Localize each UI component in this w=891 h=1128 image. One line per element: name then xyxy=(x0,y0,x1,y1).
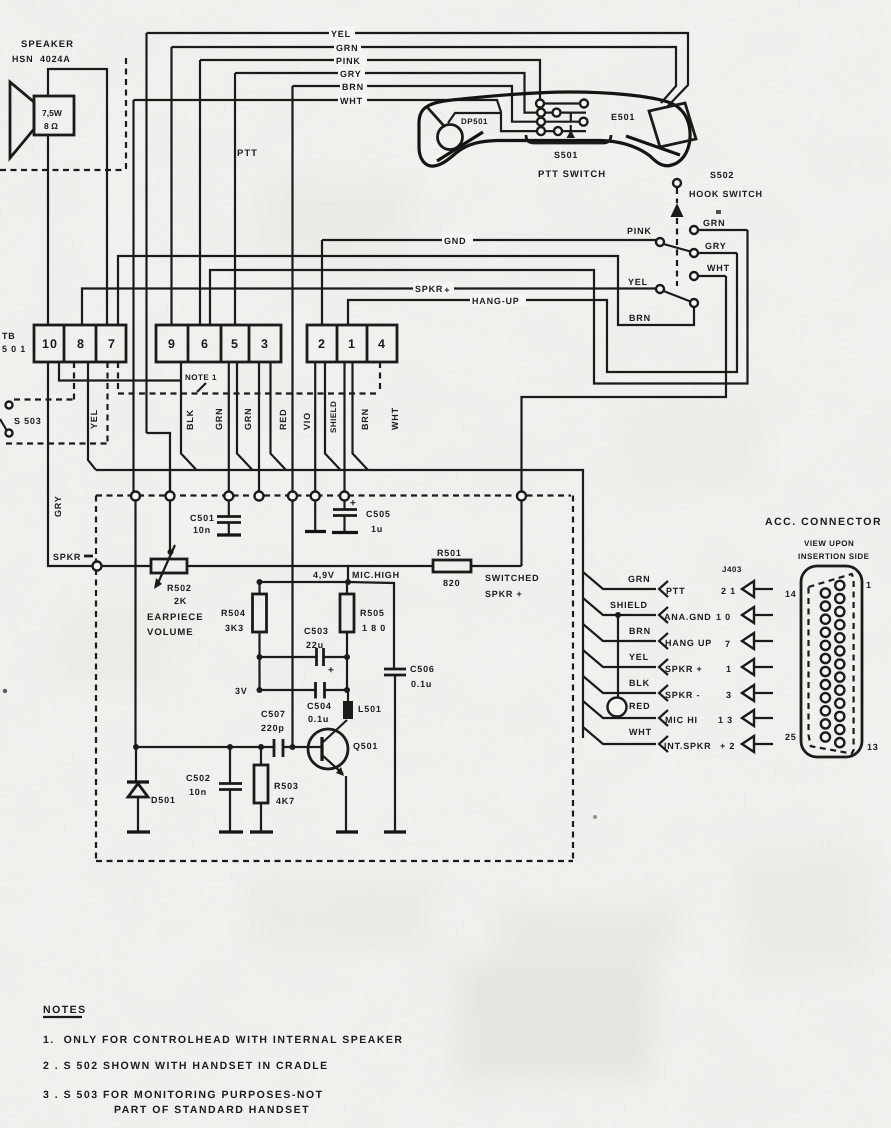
svg-text:0.1u: 0.1u xyxy=(308,714,329,724)
svg-text:SHIELD: SHIELD xyxy=(329,401,338,433)
speaker LS cone xyxy=(10,82,34,158)
terminal circle VIO xyxy=(288,492,297,501)
svg-text:7: 7 xyxy=(108,337,116,351)
svg-text:SPEAKER: SPEAKER xyxy=(21,39,74,50)
resistor R501 xyxy=(433,548,522,588)
terminal circle WHT xyxy=(131,492,140,501)
svg-text:GRY: GRY xyxy=(340,69,362,79)
svg-text:SPKR +: SPKR + xyxy=(665,664,703,674)
wire TB501-1a to terminal xyxy=(343,362,345,492)
wire WHT top xyxy=(134,100,502,112)
wire R502 to R501 xyxy=(187,565,433,567)
fan row SHIELD-ANA.GND xyxy=(583,598,773,623)
svg-text:3 . S 503 FOR MONITORING PURPO: 3 . S 503 FOR MONITORING PURPOSES-NOT xyxy=(43,1089,324,1101)
wire to C506 xyxy=(348,582,394,669)
svg-text:+ 2: + 2 xyxy=(720,741,735,751)
svg-text:1 8 0: 1 8 0 xyxy=(362,623,386,633)
wire BRN top xyxy=(293,86,537,122)
svg-text:4: 4 xyxy=(378,337,386,351)
svg-text:INT.SPKR: INT.SPKR xyxy=(664,741,711,751)
label GRN xyxy=(334,41,361,53)
wire speaker bottom to TB501-10 xyxy=(47,135,49,325)
inductor L501 xyxy=(343,690,382,719)
connector inner dashed outline xyxy=(809,574,854,754)
fan row BRN-HANG UP xyxy=(583,624,773,649)
capacitor C507 xyxy=(261,709,286,757)
hook contact PINK + blade xyxy=(656,238,691,252)
wire WHT vertical to cable terminal xyxy=(132,100,134,492)
svg-text:VIO: VIO xyxy=(302,412,312,430)
svg-text:WHT: WHT xyxy=(629,727,652,737)
svg-text:WHT: WHT xyxy=(707,263,730,273)
svg-text:1 0: 1 0 xyxy=(716,612,731,622)
svg-text:10: 10 xyxy=(42,337,58,351)
svg-text:MIC HI: MIC HI xyxy=(665,715,698,725)
switch S503 xyxy=(0,402,13,437)
svg-text:C504: C504 xyxy=(307,701,332,711)
ground stub SHIELD terminal xyxy=(305,500,326,532)
wire GRY from TB501-10 to SPKR- xyxy=(48,362,93,566)
dashed wire TB501-8 to S503 xyxy=(14,362,74,400)
wire TB501-10b to cable xyxy=(59,362,181,381)
svg-text:GRN: GRN xyxy=(336,43,358,53)
svg-text:MIC.HIGH: MIC.HIGH xyxy=(352,570,400,580)
hook contact GRN xyxy=(690,226,748,234)
svg-text:RED: RED xyxy=(278,409,288,430)
svg-text:BRN: BRN xyxy=(360,408,370,430)
fan row WHT-INT.SPKR xyxy=(583,727,773,752)
svg-text:D501: D501 xyxy=(151,795,176,805)
dashed speaker enclosure boundary xyxy=(0,58,126,170)
svg-text:HOOK SWITCH: HOOK SWITCH xyxy=(689,189,763,199)
svg-text:TB: TB xyxy=(2,331,16,341)
svg-text:BRN: BRN xyxy=(629,626,651,636)
capacitor C506 xyxy=(384,664,435,832)
wire GRN vertical to TB501-9 xyxy=(170,47,172,325)
label SPKR+ xyxy=(413,282,454,295)
svg-text:22u: 22u xyxy=(306,640,324,650)
label VIEW UPON INSERTION SIDE xyxy=(798,539,870,561)
svg-text:PTT SWITCH: PTT SWITCH xyxy=(538,169,606,180)
svg-text:6: 6 xyxy=(201,337,209,351)
notes text xyxy=(43,1004,404,1116)
svg-text:8: 8 xyxy=(77,337,85,351)
svg-text:GRN: GRN xyxy=(628,574,650,584)
speaker LS body 7,5W 8ohm xyxy=(34,96,74,135)
label GND xyxy=(442,234,473,246)
svg-text:BRN: BRN xyxy=(342,82,364,92)
svg-text:220p: 220p xyxy=(261,723,285,733)
earpiece E501 square xyxy=(649,103,696,147)
svg-text:1: 1 xyxy=(348,337,356,351)
svg-text:1 3: 1 3 xyxy=(718,715,733,725)
svg-text:GRY: GRY xyxy=(705,241,727,251)
svg-text:5 0 1: 5 0 1 xyxy=(2,344,26,354)
SPKR- dash xyxy=(84,555,93,558)
wire WHT terminal drop to base line xyxy=(134,500,136,747)
svg-text:HANG UP: HANG UP xyxy=(665,638,712,648)
capacitor C505 xyxy=(332,498,391,534)
wire TB501-2b to cable xyxy=(325,362,341,470)
svg-text:J403: J403 xyxy=(722,565,742,574)
terminal circle SPKR- left xyxy=(93,562,102,571)
svg-text:0.1u: 0.1u xyxy=(411,679,432,689)
wire SPKR+ from TB501-8 to hook YEL xyxy=(82,289,656,326)
svg-text:SPKR+: SPKR+ xyxy=(415,284,450,295)
wire GRN top xyxy=(172,47,677,103)
wire HANG-UP from TB501-1 to hook GRY contact xyxy=(348,253,737,372)
wire TB501-9 BLK to cable xyxy=(181,362,197,470)
hook switch dashed plunger xyxy=(676,188,678,286)
hook switch arrow xyxy=(671,203,684,217)
svg-text:1u: 1u xyxy=(371,524,383,534)
fan row BLK-SPKR- xyxy=(583,676,773,701)
wire pocket around DP501 to S501 row4 xyxy=(448,113,537,131)
wire TB501-3b to cable xyxy=(271,362,287,470)
svg-text:SHIELD: SHIELD xyxy=(610,600,648,610)
wire speaker top to TB501-7 xyxy=(48,69,107,325)
resistor R503 xyxy=(250,747,299,832)
handset inner diagonal top-left xyxy=(427,107,445,127)
svg-text:10n: 10n xyxy=(193,525,211,535)
S501 row2 contacts xyxy=(537,109,586,117)
wire PINK vertical to TB501-6 xyxy=(199,60,201,325)
svg-text:YEL: YEL xyxy=(628,277,648,287)
wire TB501-2a to terminal xyxy=(314,362,316,492)
svg-text:SPKR: SPKR xyxy=(53,552,81,562)
fan bus xyxy=(582,569,584,738)
svg-text:2K: 2K xyxy=(174,596,187,606)
svg-text:C501: C501 xyxy=(190,513,215,523)
svg-text:PTT: PTT xyxy=(237,148,258,159)
svg-text:4K7: 4K7 xyxy=(276,796,295,806)
svg-text:WHT: WHT xyxy=(390,407,400,430)
dashed wire TB501-7 to S503 xyxy=(6,362,108,444)
earpiece cap diagonal xyxy=(626,136,680,155)
svg-text:BLK: BLK xyxy=(185,409,195,430)
svg-text:GRN: GRN xyxy=(703,218,725,228)
terminal circle GRN xyxy=(224,492,233,501)
svg-text:GND: GND xyxy=(444,236,466,246)
svg-text:YEL: YEL xyxy=(331,29,351,39)
label PINK xyxy=(334,54,367,66)
svg-text:HANG-UP: HANG-UP xyxy=(472,296,520,306)
svg-text:ACC. CONNECTOR: ACC. CONNECTOR xyxy=(765,516,882,528)
svg-text:E501: E501 xyxy=(611,112,635,122)
svg-text:VOLUME: VOLUME xyxy=(147,627,194,638)
transistor Q501 xyxy=(308,720,378,832)
wire GND from TB501-2 to hook PINK xyxy=(322,240,656,325)
svg-text:1: 1 xyxy=(866,580,872,590)
svg-text:RED: RED xyxy=(629,701,650,711)
fan row YEL-SPKR+ xyxy=(583,650,773,675)
svg-text:C502: C502 xyxy=(186,773,211,783)
svg-text:C506: C506 xyxy=(410,664,435,674)
hook contact WHT xyxy=(690,272,726,280)
fan row GRN-PTT xyxy=(583,572,773,597)
svg-text:YEL: YEL xyxy=(89,409,99,429)
wire hook WHT to R501 node xyxy=(522,276,727,566)
svg-text:+: + xyxy=(328,665,334,676)
S501 row3 contacts xyxy=(537,118,588,126)
base wire xyxy=(133,744,322,750)
svg-text:S 503: S 503 xyxy=(14,416,42,426)
terminal block TB501 group 10-8-7 xyxy=(34,325,126,362)
wire YEL jog to terminal xyxy=(147,433,171,492)
svg-text:R501: R501 xyxy=(437,548,462,558)
connector J403 body xyxy=(801,566,862,757)
dashed NOTE1 wire TB501-7 to TB501-4 xyxy=(118,362,380,394)
fan row RED-MIC HI xyxy=(583,698,773,727)
label SWITCHED SPKR+ xyxy=(485,573,539,599)
svg-text:R503: R503 xyxy=(274,781,299,791)
svg-text:GRY: GRY xyxy=(53,495,63,517)
stray mark xyxy=(716,210,721,214)
svg-text:VIEW UPON: VIEW UPON xyxy=(804,539,854,548)
svg-text:3: 3 xyxy=(726,690,732,700)
svg-text:2 1: 2 1 xyxy=(721,586,736,596)
svg-text:3V: 3V xyxy=(235,686,248,696)
svg-text:GRN: GRN xyxy=(243,408,253,430)
handset outline xyxy=(419,92,690,166)
resistor R504 xyxy=(221,582,267,690)
scan stains xyxy=(60,180,870,1080)
svg-text:PART OF STANDARD HANDSET: PART OF STANDARD HANDSET xyxy=(114,1104,310,1116)
wire PINK top xyxy=(200,60,540,99)
svg-text:2 . S 502 SHOWN WITH HANDSET I: 2 . S 502 SHOWN WITH HANDSET IN CRADLE xyxy=(43,1060,329,1072)
svg-text:PINK: PINK xyxy=(627,226,652,236)
svg-text:5: 5 xyxy=(231,337,239,351)
hook contact YEL + blade xyxy=(656,285,698,307)
hook switch S502 plunger circle xyxy=(673,179,681,187)
svg-text:7,5W: 7,5W xyxy=(42,108,63,118)
svg-text:SPKR -: SPKR - xyxy=(665,690,700,700)
svg-text:25: 25 xyxy=(785,732,797,742)
svg-text:BLK: BLK xyxy=(629,678,650,688)
svg-text:R502: R502 xyxy=(167,583,192,593)
svg-text:820: 820 xyxy=(443,578,460,588)
wire TB501-6 to hook GRN contact xyxy=(210,230,748,384)
cable bundle line xyxy=(96,470,583,569)
svg-text:C507: C507 xyxy=(261,709,286,719)
svg-text:1: 1 xyxy=(726,664,732,674)
svg-text:R504: R504 xyxy=(221,608,246,618)
svg-text:YEL: YEL xyxy=(629,652,649,662)
connector pins right column xyxy=(835,581,844,747)
connector pins left column xyxy=(821,588,830,741)
S501 actuator arrow xyxy=(567,130,576,138)
S501 actuator link xyxy=(570,113,572,135)
wire TB501-5b to cable xyxy=(237,362,253,470)
capacitor C502 xyxy=(186,747,243,832)
svg-text:WHT: WHT xyxy=(340,96,363,106)
capacitor C504 xyxy=(257,682,351,724)
wire YEL drop to terminal (cross) xyxy=(169,470,171,492)
wire YEL vertical xyxy=(145,33,147,433)
hook contact GRY xyxy=(690,249,737,257)
svg-text:10n: 10n xyxy=(189,787,207,797)
terminal circle BRN2 xyxy=(340,492,349,501)
wire GRY vertical to TB501-5 xyxy=(234,73,236,325)
terminal block TB501 group 9-6-5-3 xyxy=(156,325,281,362)
svg-text:S501: S501 xyxy=(554,150,578,160)
shield wire to RED loop xyxy=(615,612,621,698)
potentiometer R502 xyxy=(151,500,192,606)
wire VIO drop to base xyxy=(291,500,293,747)
label 4,9V MIC.HIGH xyxy=(313,570,400,580)
dashed box outline xyxy=(96,496,573,862)
svg-text:PINK: PINK xyxy=(336,56,361,66)
stray mark xyxy=(593,815,597,819)
label NOTE 1 xyxy=(185,373,217,392)
terminal circle SHIELD xyxy=(311,492,320,501)
svg-text:L501: L501 xyxy=(358,704,382,714)
microphone DP501 circle xyxy=(438,125,463,150)
svg-text:PTT: PTT xyxy=(666,586,685,596)
svg-text:4,9V: 4,9V xyxy=(313,570,335,580)
svg-text:SPKR +: SPKR + xyxy=(485,589,523,599)
svg-text:S502: S502 xyxy=(710,170,734,180)
label HANG-UP xyxy=(470,294,526,306)
svg-text:3: 3 xyxy=(261,337,269,351)
wire TB501-7 to hook BRN contact xyxy=(118,256,694,325)
svg-text:9: 9 xyxy=(168,337,176,351)
svg-text:DP501: DP501 xyxy=(461,117,488,126)
wire MIC.HIGH node xyxy=(257,566,352,585)
label GRY xyxy=(338,67,365,79)
svg-text:8 Ω: 8 Ω xyxy=(44,121,58,131)
terminal circle YEL xyxy=(166,492,175,501)
resistor R505 xyxy=(340,582,386,690)
stray mark xyxy=(3,689,7,693)
svg-text:3K3: 3K3 xyxy=(225,623,244,633)
svg-text:7: 7 xyxy=(725,639,731,649)
label WHT xyxy=(338,94,367,106)
speaker label xyxy=(12,39,74,64)
wire TB501-8 SPKR+ branch to cable xyxy=(88,362,96,470)
wire TB501-5a GRN to terminal xyxy=(228,362,230,492)
wire SPKR- rail xyxy=(101,565,151,567)
svg-text:ANA.GND: ANA.GND xyxy=(664,612,712,622)
svg-text:HSN 4024A: HSN 4024A xyxy=(12,54,71,64)
handset hatch diagonal left xyxy=(437,132,483,161)
capacitor C501 xyxy=(190,500,241,535)
S501 row1 contacts xyxy=(536,100,588,108)
svg-text:GRN: GRN xyxy=(214,408,224,430)
diode D501 xyxy=(127,747,176,832)
svg-text:BRN: BRN xyxy=(629,313,651,323)
svg-text:NOTES: NOTES xyxy=(43,1004,87,1016)
svg-text:NOTE 1: NOTE 1 xyxy=(185,373,217,382)
svg-text:Q501: Q501 xyxy=(353,741,378,751)
wire TB501-3a to terminal xyxy=(258,362,260,492)
wire BRN vertical to cable terminal xyxy=(291,86,293,492)
capacitor C503 xyxy=(257,626,351,676)
terminal circle GRN2 xyxy=(255,492,264,501)
S501 row4 contacts xyxy=(537,127,586,135)
svg-text:14: 14 xyxy=(785,589,797,599)
svg-text:13: 13 xyxy=(867,742,879,752)
svg-text:2: 2 xyxy=(318,337,326,351)
svg-text:C503: C503 xyxy=(304,626,329,636)
terminal circle switched SPKR+ xyxy=(517,492,526,501)
svg-text:1. ONLY FOR CONTROLHEAD WITH: 1. ONLY FOR CONTROLHEAD WITH INTERNAL SP… xyxy=(43,1034,404,1046)
svg-text:INSERTION SIDE: INSERTION SIDE xyxy=(798,552,870,561)
wire GRY top xyxy=(235,73,537,113)
label EARPIECE VOLUME xyxy=(147,612,204,638)
svg-text:EARPIECE: EARPIECE xyxy=(147,612,204,623)
label TB501 xyxy=(2,331,26,354)
wire TB501-1b to cable xyxy=(353,362,369,470)
label YEL xyxy=(329,27,355,39)
svg-text:R505: R505 xyxy=(360,608,385,618)
svg-text:C505: C505 xyxy=(366,509,391,519)
label BRN xyxy=(340,80,367,92)
wire YEL top xyxy=(147,33,689,108)
svg-text:SWITCHED: SWITCHED xyxy=(485,573,539,583)
S501 bracket xyxy=(526,135,611,143)
svg-text:+: + xyxy=(350,498,356,509)
terminal block TB501 group 2-1-4 xyxy=(307,325,397,362)
